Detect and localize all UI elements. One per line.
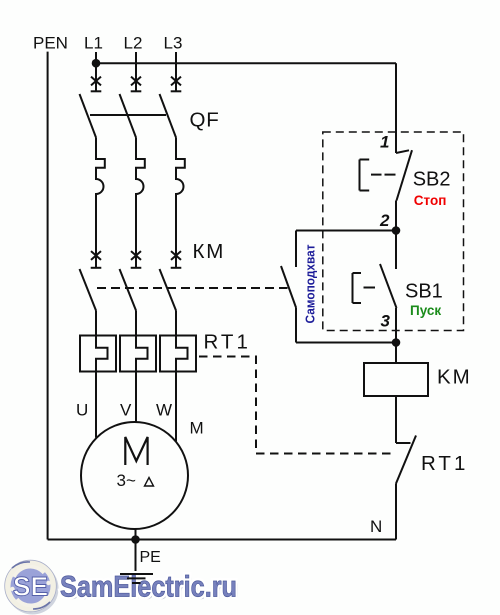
wire PE drop [135, 540, 137, 572]
button SB2 contact [396, 150, 412, 230]
terminal X L1 [91, 77, 102, 92]
wire L3 drop [175, 52, 177, 91]
svg-text:L1: L1 [84, 34, 103, 53]
svg-text:PEN: PEN [33, 34, 68, 53]
svg-text:Самоподхват: Самоподхват [303, 245, 318, 324]
wire node2 to SB1 [395, 231, 397, 270]
thermal relay RT1 heater pole 3 [160, 311, 196, 442]
svg-text:2: 2 [379, 211, 390, 230]
terminal X L2 [131, 77, 142, 92]
breaker QF pole 3 [160, 94, 185, 268]
RT1 trip link dashed [199, 357, 391, 454]
svg-text:SamElectric.ru: SamElectric.ru [60, 571, 237, 604]
svg-text:PE: PE [140, 549, 161, 566]
wire coil to RT1 contact [395, 396, 397, 443]
junction dot L1 bus [92, 59, 101, 68]
svg-text:M: M [190, 419, 204, 438]
svg-text:KM: KM [437, 366, 472, 389]
coil KM [364, 363, 428, 396]
wire motor to bottom bus [135, 529, 137, 540]
svg-text:Пуск: Пуск [410, 303, 441, 318]
wire latch lower [295, 308, 297, 343]
motor M letter [125, 437, 147, 465]
wire L1 drop [95, 52, 97, 91]
QF linkage bar [90, 114, 166, 116]
breaker QF pole 1 [80, 94, 105, 268]
junction dot node 3 [392, 338, 401, 347]
contactor KM latch contact lever [281, 266, 296, 308]
svg-text:L2: L2 [124, 34, 143, 53]
watermark SamElectric.ru [5, 560, 240, 614]
motor M1 circle [81, 422, 188, 529]
wire node3 to coil [395, 343, 397, 364]
svg-text:Стоп: Стоп [414, 193, 447, 208]
contactor KM pole 2 lever [120, 269, 137, 311]
thermal relay RT1 heater pole 2 [120, 311, 156, 423]
button SB1 actuator [353, 273, 376, 303]
KM mechanical link dashed [97, 287, 288, 289]
contactor KM pole 1 lever [80, 269, 97, 311]
terminal X KM pole 1 [91, 251, 102, 268]
svg-text:3: 3 [381, 311, 391, 330]
terminal X KM pole 2 [131, 251, 142, 268]
svg-text:V: V [120, 401, 132, 420]
ground symbol PE [120, 574, 153, 583]
svg-text:RT1: RT1 [421, 452, 468, 475]
svg-text:N: N [370, 517, 382, 536]
svg-text:1: 1 [380, 133, 389, 152]
button SB1 contact [380, 264, 397, 343]
svg-text:QF: QF [190, 109, 220, 132]
wire L2 drop [135, 52, 137, 91]
terminal X L3 [171, 77, 182, 92]
svg-text:SE: SE [13, 572, 48, 602]
breaker QF pole 2 [120, 94, 145, 268]
svg-text:L3: L3 [164, 34, 183, 53]
svg-text:3~: 3~ [117, 471, 136, 490]
wire top bus [96, 62, 396, 64]
junction dot node 2 [392, 226, 401, 235]
svg-text:SB1: SB1 [405, 281, 443, 303]
svg-text:W: W [156, 401, 172, 420]
dashed enclosure buttons box [323, 132, 464, 331]
wire bottom bus N [48, 539, 396, 541]
thermal relay RT1 heater pole 1 [80, 311, 116, 438]
svg-text:SB2: SB2 [413, 169, 451, 191]
wire latch bottom branch [296, 342, 396, 344]
svg-text:RT1: RT1 [204, 331, 251, 354]
wire PEN conductor [47, 52, 49, 540]
svg-text:КМ: КМ [193, 240, 226, 263]
terminal X KM pole 3 [171, 251, 182, 268]
motor delta symbol [145, 478, 154, 487]
button SB2 actuator [360, 160, 396, 191]
wire control feed drop [395, 63, 397, 153]
wire latch top branch [296, 230, 396, 232]
svg-text:U: U [76, 401, 88, 420]
relay RT1 NC contact [396, 436, 416, 540]
wire latch drop [295, 231, 297, 268]
junction dot PE [131, 535, 140, 544]
contactor KM pole 3 lever [160, 269, 177, 311]
